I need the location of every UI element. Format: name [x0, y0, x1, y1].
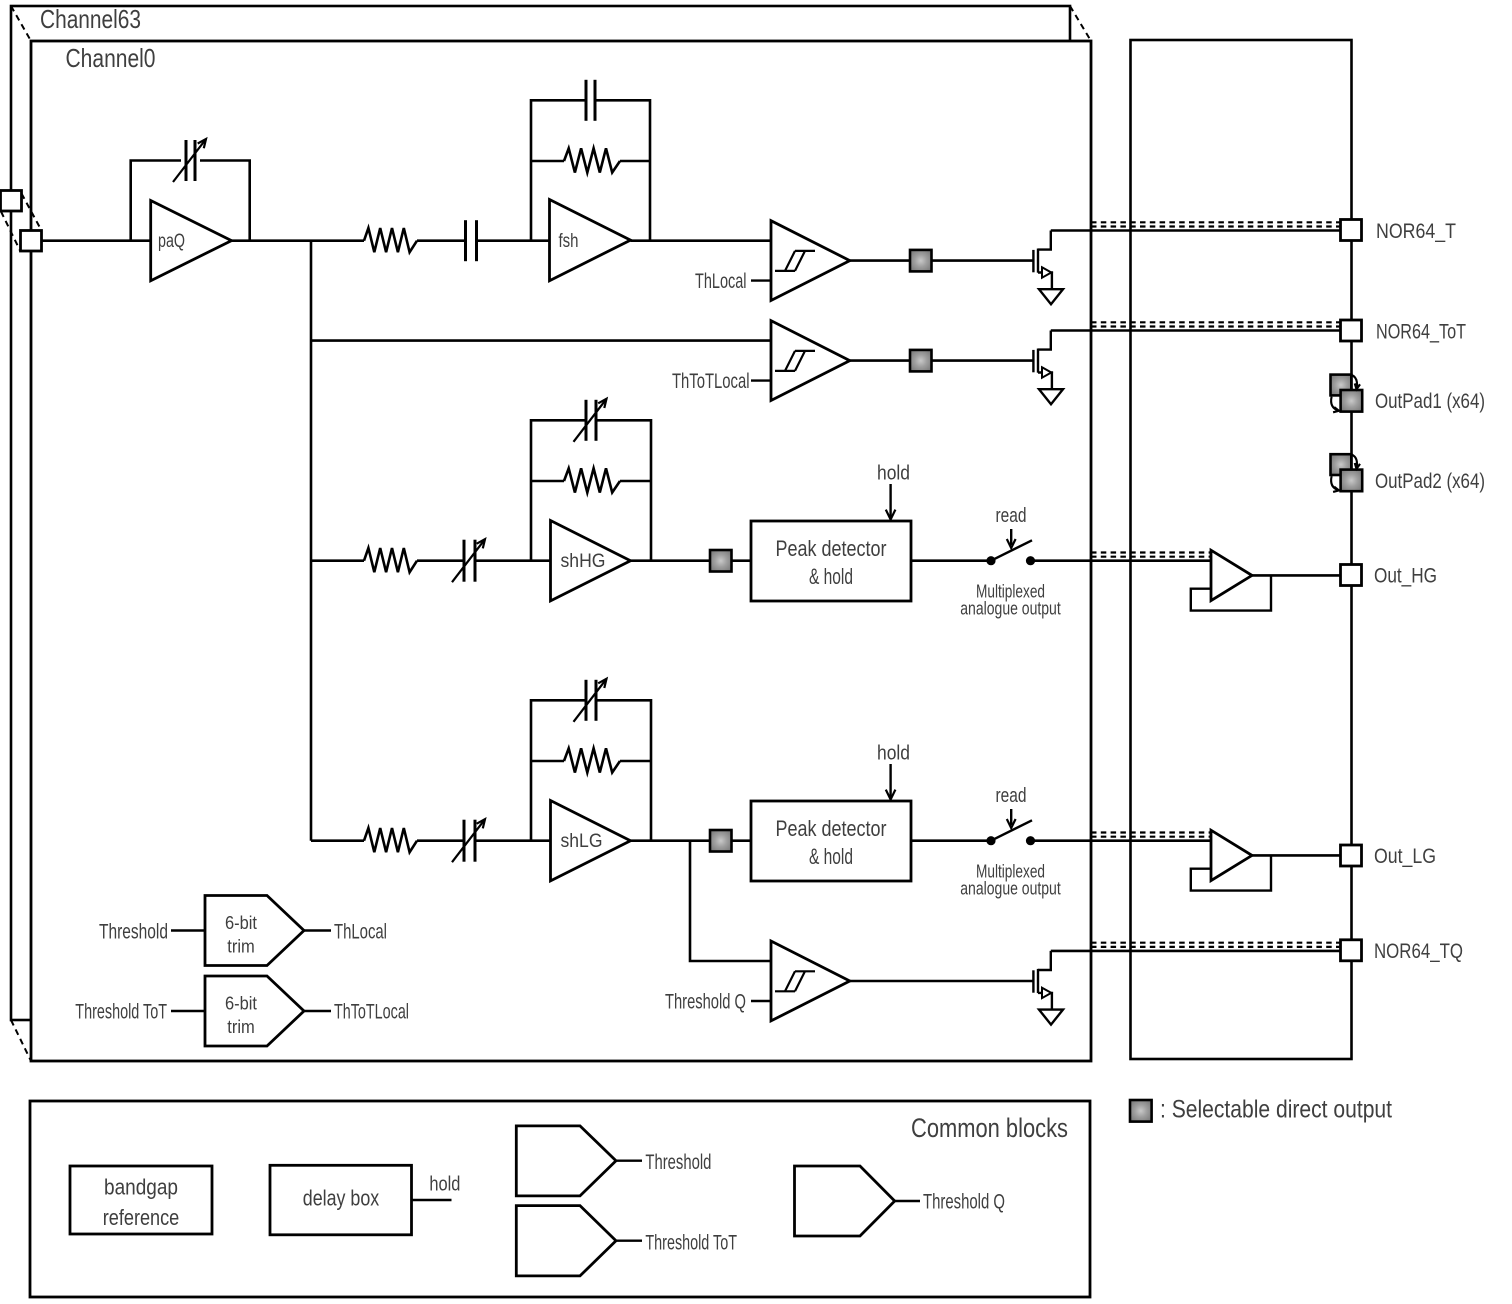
wire buffer to Out_LG pad — [1252, 854, 1341, 857]
OutPad2 rear pad — [1331, 454, 1352, 475]
comparator U_T (Schmitt) — [771, 221, 850, 301]
label read (LG) — [996, 784, 1027, 807]
ground (ToT row) — [1039, 389, 1063, 404]
read switch (HG) — [986, 540, 1035, 565]
selectable direct output square (ToT) — [910, 350, 932, 372]
resistor (fsh input) — [364, 228, 417, 252]
svg-text:& hold: & hold — [809, 844, 853, 869]
wire shLG to square — [631, 839, 711, 842]
OutPad1 rear pad — [1331, 375, 1352, 396]
6-bit trim block (Threshold ToT) — [205, 976, 304, 1046]
wire capacitor to fsh — [477, 239, 550, 242]
wire Threshold to trim — [171, 929, 205, 931]
corner dash TL Channel63->Channel0 — [11, 6, 31, 41]
svg-text:ThToTLocal: ThToTLocal — [672, 370, 750, 393]
shHG feedback resistor path — [531, 480, 651, 483]
svg-text:& hold: & hold — [809, 564, 853, 589]
svg-text:NOR64_T: NOR64_T — [1376, 220, 1456, 243]
wire trim to ThToTLocal — [304, 1010, 331, 1012]
wire buffer to Out_HG pad — [1252, 574, 1341, 577]
resistor (fsh feedback) — [564, 148, 620, 172]
wire branch to shLG resistor — [311, 839, 364, 842]
wire square to peak detector (LG) — [732, 839, 752, 842]
svg-text:Threshold: Threshold — [645, 1151, 711, 1174]
wire M_T drain to NOR64_T pad — [1051, 229, 1341, 232]
label OutPad2 (x64) — [1375, 470, 1485, 493]
svg-text:OutPad1 (x64): OutPad1 (x64) — [1375, 390, 1485, 413]
label Threshold ToT (trim input) — [75, 1001, 167, 1024]
wire delay box hold output — [412, 1199, 452, 1201]
label Multiplexed analogue output (HG) — [960, 580, 1061, 618]
label shLG — [561, 831, 603, 852]
label Threshold (trim input) — [99, 921, 168, 944]
resistor (shLG feedback) — [564, 748, 620, 772]
pad stack dash lower — [1, 212, 21, 252]
bus dashes (NOR64_T) — [1091, 222, 1341, 226]
label Out_LG — [1374, 845, 1436, 868]
wire branch to comparator ToT — [311, 339, 771, 342]
wire square to transistor M_T — [932, 259, 1034, 262]
read arrow (LG) — [1007, 809, 1016, 828]
label ThLocal (trim output) — [334, 921, 387, 944]
delay box block — [270, 1165, 412, 1235]
read arrow (HG) — [1007, 529, 1016, 548]
OutPad2 stack arrow lower — [1331, 476, 1339, 492]
peak detector & hold block (LG) — [751, 801, 911, 881]
pad Out_HG — [1341, 565, 1362, 586]
label Threshold ToT (legend) — [645, 1231, 737, 1254]
wire fsh to comparator T — [631, 239, 772, 242]
wire paQ output — [232, 239, 365, 242]
OutPad1 stack arrow lower — [1331, 397, 1339, 413]
svg-text:: Selectable direct output: : Selectable direct output — [1160, 1096, 1392, 1124]
buffer feedback wire (Out_HG) — [1191, 575, 1271, 610]
shLG feedback loop wires — [531, 700, 651, 840]
svg-text:delay box: delay box — [303, 1186, 380, 1211]
threshold Q pentagon (legend) — [795, 1166, 895, 1236]
threshold ToT pentagon (legend) — [516, 1206, 616, 1276]
selectable direct output key square — [1130, 1100, 1152, 1122]
fsh feedback loop wires — [531, 100, 650, 240]
label OutPad1 (x64) — [1375, 390, 1485, 413]
svg-text:Peak detector: Peak detector — [776, 816, 887, 841]
wire peak detector to read switch (LG) — [911, 839, 991, 842]
channel block Channel0 (front frame) — [31, 41, 1091, 1061]
variable capacitor (shLG input) — [452, 819, 485, 862]
svg-text:trim: trim — [227, 1016, 255, 1037]
transistor M_TQ (NMOS) — [1033, 951, 1052, 1010]
transistor M_ToT (NMOS) — [1033, 331, 1052, 390]
label Common blocks — [911, 1113, 1068, 1143]
input pad (Channel0) — [21, 231, 42, 252]
label ThToTLocal (trim output) — [334, 1001, 409, 1024]
pad NOR64_ToT — [1341, 320, 1362, 341]
resistor (shLG input) — [364, 828, 417, 852]
svg-text:Channel63: Channel63 — [40, 4, 141, 34]
svg-text:Threshold Q: Threshold Q — [665, 990, 746, 1013]
label Threshold Q (legend) — [923, 1191, 1005, 1214]
hold arrow (LG) — [886, 764, 896, 800]
shLG feedback resistor path — [531, 760, 651, 763]
buffer op-amp (Out_HG) — [1211, 550, 1252, 600]
label read (HG) — [996, 504, 1027, 527]
wire trim to ThLocal — [304, 929, 331, 931]
svg-text:paQ: paQ — [158, 231, 185, 252]
common blocks frame — [30, 1101, 1090, 1297]
wire shLG branch down to comparator TQ — [690, 841, 771, 961]
resistor (shHG input) — [364, 548, 417, 572]
wire comparator ToT output — [850, 359, 910, 362]
wire read switch to buffer (HG) — [1031, 559, 1212, 562]
label NOR64_ToT — [1376, 321, 1466, 344]
hold arrow (HG) — [886, 484, 896, 520]
wire capacitor to shHG — [475, 559, 551, 562]
pad NOR64_T — [1341, 220, 1362, 241]
svg-text:analogue output: analogue output — [960, 598, 1061, 619]
svg-text:analogue output: analogue output — [960, 878, 1061, 899]
svg-text:shHG: shHG — [561, 551, 606, 572]
svg-text:fsh: fsh — [559, 231, 579, 252]
wire Threshold ToT to trim — [171, 1010, 205, 1012]
label NOR64_TQ — [1374, 940, 1463, 963]
label Channel0 — [66, 43, 156, 73]
wire read switch to buffer (LG) — [1031, 839, 1212, 842]
wire M_TQ drain to NOR64_TQ pad — [1051, 950, 1341, 953]
buffer feedback wire (Out_LG) — [1191, 855, 1271, 890]
label hold (LG) — [877, 742, 910, 765]
shHG feedback loop wires — [531, 420, 651, 560]
wire threshold pentagon output — [616, 1159, 642, 1161]
svg-text:Threshold Q: Threshold Q — [923, 1191, 1005, 1214]
svg-text:ThToTLocal: ThToTLocal — [334, 1001, 409, 1024]
wire shHG to square — [631, 559, 711, 562]
op-amp shLG — [551, 801, 631, 881]
shHG feedback variable capacitor — [574, 399, 607, 442]
svg-text:Channel0: Channel0 — [66, 43, 156, 73]
selectable direct output square (T) — [910, 250, 932, 272]
wire square to peak detector (HG) — [732, 559, 752, 562]
label ThLocal (comparator input) — [695, 270, 747, 293]
svg-text:ThLocal: ThLocal — [695, 270, 747, 293]
wire input pad to paQ — [42, 239, 151, 242]
svg-text:shLG: shLG — [561, 831, 603, 852]
wire capacitor to shLG — [475, 839, 551, 842]
bus dashes (NOR64_ToT) — [1091, 322, 1341, 326]
svg-text:Common blocks: Common blocks — [911, 1113, 1068, 1143]
wire comparator T output — [850, 259, 910, 262]
OutPad1 stack arrow upper — [1352, 375, 1360, 389]
peak detector & hold block (HG) — [751, 521, 911, 601]
shLG feedback variable capacitor — [574, 679, 607, 722]
label Threshold Q (comparator input) — [665, 990, 746, 1013]
svg-text:hold: hold — [877, 462, 910, 485]
label Threshold (legend) — [645, 1151, 711, 1174]
label NOR64_T — [1376, 220, 1456, 243]
label fsh — [559, 231, 579, 252]
label paQ — [158, 231, 185, 252]
svg-text:NOR64_TQ: NOR64_TQ — [1374, 940, 1463, 963]
svg-text:Out_HG: Out_HG — [1374, 565, 1437, 588]
wire Threshold Q to comparator — [751, 1000, 771, 1002]
6-bit trim block (Threshold) — [205, 896, 304, 966]
svg-text:6-bit: 6-bit — [225, 993, 257, 1014]
paQ feedback variable capacitor — [173, 139, 206, 182]
svg-text:NOR64_ToT: NOR64_ToT — [1376, 321, 1466, 344]
svg-text:ThLocal: ThLocal — [334, 921, 387, 944]
bandgap reference block — [70, 1166, 212, 1234]
svg-text:hold: hold — [429, 1173, 460, 1195]
OutPad1 front pad — [1341, 390, 1363, 412]
read switch (LG) — [986, 820, 1035, 845]
op-amp fsh — [550, 200, 631, 281]
label Multiplexed analogue output (LG) — [960, 860, 1061, 898]
comparator U_TQ (Schmitt) — [771, 941, 850, 1021]
svg-text:Threshold ToT: Threshold ToT — [645, 1231, 737, 1254]
bus dashes (NOR64_TQ) — [1091, 943, 1341, 947]
label shHG — [561, 551, 606, 572]
svg-text:read: read — [996, 784, 1027, 807]
ground (TQ row) — [1039, 1010, 1063, 1025]
wire resistor to variable capacitor (shLG) — [417, 839, 464, 842]
svg-text:Threshold: Threshold — [99, 921, 168, 944]
svg-text:bandgap: bandgap — [104, 1174, 178, 1199]
wire M_ToT drain to NOR64_ToT pad — [1051, 329, 1341, 332]
svg-text:Peak detector: Peak detector — [776, 536, 887, 561]
wire branch vertical (paQ out down to shLG) — [310, 241, 313, 841]
capacitor (fsh input) — [466, 220, 477, 261]
bus dashes (Out_LG) — [1091, 833, 1211, 837]
OutPad2 front pad — [1341, 470, 1363, 492]
paQ feedback loop wire — [131, 161, 250, 241]
svg-text:Threshold ToT: Threshold ToT — [75, 1001, 167, 1024]
bus dashes (Out_HG) — [1091, 553, 1211, 557]
op-amp paQ — [151, 201, 232, 281]
threshold pentagon (legend) — [516, 1126, 616, 1196]
wire threshold Q pentagon output — [895, 1200, 920, 1202]
wire resistor to capacitor — [417, 239, 466, 242]
fsh feedback capacitor — [586, 80, 595, 121]
svg-text:hold: hold — [877, 742, 910, 765]
wire square to transistor M_ToT — [932, 359, 1034, 362]
selectable direct output square (LG) — [710, 830, 732, 852]
label hold (legend) — [429, 1173, 460, 1195]
label ThToTLocal (comparator input) — [672, 370, 750, 393]
wire comparator TQ output — [850, 980, 1034, 983]
op-amp shHG — [551, 521, 631, 601]
svg-text:read: read — [996, 504, 1027, 527]
ground (T row) — [1039, 289, 1063, 304]
output column block — [1131, 40, 1352, 1059]
pad Out_LG — [1341, 845, 1362, 866]
channel block Channel63 (rear frame) — [11, 6, 1070, 1020]
wire peak detector to read switch (HG) — [911, 559, 991, 562]
wire branch to shHG resistor — [311, 559, 364, 562]
pad stack dash upper — [22, 194, 42, 231]
corner dash BL Channel63->Channel0 — [11, 1020, 31, 1061]
fsh feedback resistor path — [531, 160, 650, 163]
comparator U_ToT (Schmitt) — [771, 321, 850, 401]
svg-text:6-bit: 6-bit — [225, 912, 257, 933]
corner dash TR Channel63->Channel0 — [1070, 6, 1091, 41]
label Channel63 — [40, 4, 141, 34]
variable capacitor (shHG input) — [452, 539, 485, 582]
pad NOR64_TQ — [1341, 940, 1362, 961]
transistor M_T (NMOS) — [1033, 231, 1052, 290]
svg-text:Out_LG: Out_LG — [1374, 845, 1436, 868]
label Out_HG — [1374, 565, 1437, 588]
wire resistor to variable capacitor (shHG) — [417, 559, 464, 562]
svg-text:OutPad2 (x64): OutPad2 (x64) — [1375, 470, 1485, 493]
wire ThLocal to comparator — [751, 279, 771, 281]
wire ThToTLocal to comparator — [751, 379, 771, 381]
input pad (Channel63) — [1, 191, 22, 212]
selectable direct output square (HG) — [710, 550, 732, 572]
wire threshold ToT pentagon output — [616, 1239, 642, 1241]
svg-text:reference: reference — [103, 1205, 180, 1230]
OutPad2 stack arrow upper — [1352, 455, 1360, 469]
svg-text:trim: trim — [227, 936, 255, 957]
label Selectable direct output — [1160, 1096, 1392, 1124]
label hold (HG) — [877, 462, 910, 485]
resistor (shHG feedback) — [564, 468, 620, 492]
buffer op-amp (Out_LG) — [1211, 830, 1252, 880]
